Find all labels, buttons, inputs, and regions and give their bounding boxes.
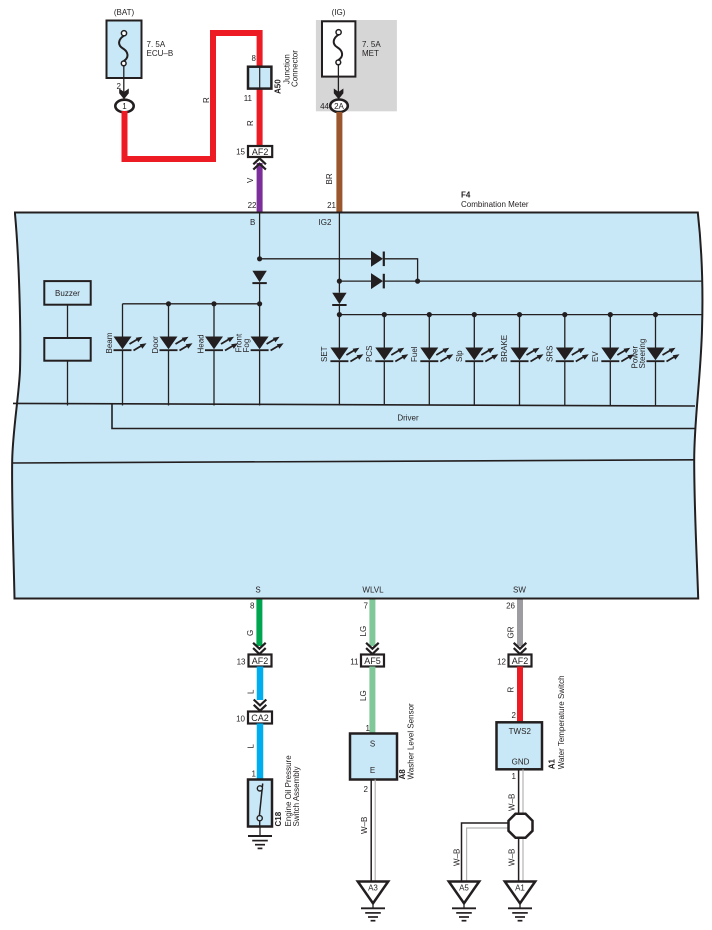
svg-text:2: 2	[512, 711, 517, 720]
svg-text:22: 22	[248, 201, 257, 210]
label Power Steering	[631, 339, 648, 369]
wire W-B from A8 to A3	[371, 780, 375, 882]
right LED bus	[339, 314, 702, 316]
svg-text:AF5: AF5	[364, 656, 381, 666]
connector AF5	[361, 655, 384, 667]
wire BR (brown) to combination meter	[336, 112, 342, 213]
wire Front Fog column	[259, 304, 261, 406]
wire diode D2 output to meter right edge	[384, 280, 703, 282]
svg-text:IG2: IG2	[319, 218, 332, 227]
wire W-B TWS2 to octagon junction	[519, 769, 523, 814]
svg-text:26: 26	[506, 602, 515, 611]
wire buzzer to driver box	[67, 305, 69, 338]
node bus EV	[608, 312, 613, 317]
ground (C18)	[248, 836, 272, 848]
node on IG2 wire	[337, 279, 342, 284]
wire B inside meter	[259, 213, 261, 261]
svg-text:ECU–B: ECU–B	[147, 49, 174, 58]
wire LG AF5 to washer sensor	[369, 667, 375, 734]
label Front Fog	[234, 333, 251, 352]
svg-text:F4: F4	[461, 190, 471, 199]
svg-text:WLVL: WLVL	[362, 586, 384, 595]
svg-text:2: 2	[364, 785, 369, 794]
water temperature switch TWS2	[497, 722, 543, 769]
wire Door column	[168, 304, 170, 406]
chevron into AF2 (12)	[514, 643, 527, 654]
svg-text:PCS: PCS	[365, 346, 374, 362]
wire EV column	[609, 315, 611, 406]
label A8 Washer Level Sensor	[398, 703, 416, 780]
wire V (violet) to combination meter	[257, 163, 263, 213]
svg-text:R: R	[202, 97, 211, 103]
svg-text:G: G	[246, 630, 255, 636]
node on B wire	[257, 256, 262, 261]
wire A5 to ground	[463, 903, 465, 908]
ground (A1)	[508, 908, 532, 920]
node bus PCS	[382, 312, 387, 317]
svg-text:AF2: AF2	[512, 656, 529, 666]
wire B node to right diode 1	[260, 258, 371, 260]
arrow into connector 2A	[334, 89, 344, 100]
connector circle 1	[115, 100, 133, 113]
LED SRS	[556, 348, 589, 362]
svg-text:1: 1	[366, 724, 371, 733]
meter internal line (top of driver band)	[13, 403, 695, 406]
wire LG from meter pin WLVL	[369, 600, 375, 647]
svg-text:A3: A3	[368, 884, 378, 893]
svg-text:8: 8	[252, 54, 257, 63]
svg-text:BRAKE: BRAKE	[500, 335, 509, 362]
svg-text:21: 21	[327, 201, 336, 210]
LED Beam	[114, 337, 147, 351]
svg-text:BR: BR	[325, 173, 334, 184]
connector triangle A3	[358, 882, 388, 904]
wire R (red) from connector 1 to junction A50 and AF2	[125, 33, 260, 159]
connector AF2 (12)	[509, 655, 532, 667]
junction connector A50	[248, 67, 271, 89]
svg-text:TWS2: TWS2	[509, 727, 532, 736]
wire buzzer driver to bottom bus	[67, 361, 69, 406]
svg-text:Beam: Beam	[105, 332, 114, 353]
wire SRS column	[564, 315, 566, 406]
svg-text:S: S	[370, 740, 375, 749]
svg-text:7. 5A: 7. 5A	[362, 40, 381, 49]
connector CA2	[248, 712, 272, 724]
svg-text:13: 13	[237, 658, 246, 667]
LED Fuel	[420, 348, 453, 362]
diode down on B branch	[252, 271, 266, 283]
svg-text:SET: SET	[320, 346, 329, 362]
driver band bracket	[112, 404, 696, 429]
fuse 7.5A ECU-B box	[107, 21, 142, 79]
wire diode D1 to node	[384, 259, 418, 281]
diode D2 (from IG2)	[371, 273, 384, 289]
LED Slp	[465, 348, 498, 362]
svg-text:44: 44	[320, 102, 329, 111]
svg-text:LG: LG	[359, 690, 368, 701]
node bus Front Fog	[257, 301, 262, 306]
svg-text:Slp: Slp	[455, 350, 464, 362]
svg-text:L: L	[247, 744, 256, 749]
svg-text:7: 7	[364, 602, 369, 611]
wire IG2 inside meter	[338, 213, 340, 293]
chevron into AF5	[366, 643, 379, 654]
wire G (green) from meter pin S	[256, 600, 262, 647]
wire fuse to connector 1	[123, 66, 125, 95]
svg-text:AF2: AF2	[252, 147, 269, 157]
node bus Door	[166, 301, 171, 306]
junction octagon	[509, 814, 533, 838]
svg-text:Connector: Connector	[291, 50, 300, 87]
svg-text:8: 8	[250, 602, 255, 611]
svg-text:11: 11	[244, 94, 253, 103]
LED Power Steering	[647, 348, 680, 362]
svg-text:1: 1	[512, 772, 517, 781]
svg-text:A5: A5	[459, 884, 469, 893]
svg-text:Fuel: Fuel	[410, 346, 419, 362]
arrow into connector 1	[119, 89, 129, 100]
driver stage box (buzzer)	[44, 338, 90, 361]
svg-text:7. 5A: 7. 5A	[147, 40, 166, 49]
svg-text:Buzzer: Buzzer	[55, 289, 80, 298]
wire GR (gray) from meter pin SW	[517, 600, 523, 647]
svg-text:AF2: AF2	[252, 656, 269, 666]
wire diode to left LED bus	[259, 283, 261, 305]
wire Power Steering column	[655, 315, 657, 406]
svg-text:E: E	[370, 766, 375, 775]
svg-text:W–B: W–B	[453, 849, 462, 866]
wire BRAKE column	[519, 315, 521, 406]
IG fuse gray panel	[316, 20, 397, 111]
ground (A5)	[452, 908, 476, 920]
svg-text:R: R	[246, 120, 255, 126]
wire A3 to ground	[372, 903, 374, 908]
svg-text:Water Temperature Switch: Water Temperature Switch	[557, 675, 566, 769]
ground (A3)	[361, 908, 385, 920]
label A50 Junction Connector	[274, 50, 300, 94]
wire Fuel column	[428, 315, 430, 406]
label A1 Water Temperature Switch	[548, 675, 567, 769]
wire Beam column	[122, 304, 124, 406]
connector circle 2A	[330, 100, 348, 113]
svg-text:CA2: CA2	[251, 713, 269, 723]
wire IG2 node to right diode 2	[339, 280, 371, 282]
LED BRAKE	[511, 348, 544, 362]
node joining D1 and D2 outputs	[415, 279, 420, 284]
wire Head column	[213, 304, 215, 406]
combination meter body	[12, 213, 702, 599]
wire C18 to ground	[259, 827, 261, 837]
meter internal separator line	[12, 460, 694, 463]
svg-text:Washer Level Sensor: Washer Level Sensor	[407, 703, 416, 780]
wire diode to right LED bus	[338, 304, 340, 315]
svg-text:(BAT): (BAT)	[114, 8, 135, 17]
wire L (blue) CA2 to C18	[257, 724, 264, 781]
node bus BRAKE	[517, 312, 522, 317]
svg-text:C18: C18	[274, 811, 283, 826]
svg-text:1: 1	[252, 770, 257, 779]
svg-text:W–B: W–B	[360, 817, 369, 834]
svg-text:1: 1	[122, 102, 127, 111]
svg-text:L: L	[247, 689, 256, 694]
svg-text:Head: Head	[197, 334, 206, 353]
wire W-B octagon to A5	[462, 823, 511, 882]
svg-text:A1: A1	[515, 884, 525, 893]
svg-text:W–B: W–B	[508, 849, 517, 866]
connector AF2 (13)	[249, 655, 272, 667]
node bus SRS	[562, 312, 567, 317]
svg-text:SW: SW	[513, 586, 526, 595]
connector triangle A5	[449, 882, 479, 904]
svg-text:Fog: Fog	[242, 339, 251, 353]
washer level sensor A8	[350, 734, 397, 780]
connector triangle A1	[505, 882, 535, 904]
node bus Head	[211, 301, 216, 306]
diode D1 (from B)	[371, 251, 384, 267]
node bus Slp	[472, 312, 477, 317]
wire SET column	[338, 315, 340, 406]
wire W-B octagon to A1	[519, 838, 523, 882]
oil pressure switch C18	[248, 780, 272, 827]
svg-text:GND: GND	[512, 757, 530, 766]
svg-text:W–B: W–B	[508, 794, 517, 811]
svg-text:A50: A50	[274, 79, 283, 94]
svg-text:GR: GR	[507, 626, 516, 638]
wire R (red) AF2 to TWS2	[517, 667, 523, 723]
LED Door	[160, 337, 193, 351]
wire A1 to ground	[519, 903, 521, 908]
svg-text:A1: A1	[548, 759, 557, 770]
svg-text:V: V	[246, 177, 255, 183]
svg-text:(IG): (IG)	[332, 8, 346, 17]
svg-text:Switch Assembly: Switch Assembly	[292, 766, 301, 826]
fuse 7.5A MET box	[322, 21, 355, 76]
chevron into AF2	[253, 158, 266, 169]
left LED bus	[123, 303, 260, 305]
svg-text:11: 11	[350, 658, 359, 667]
svg-text:SRS: SRS	[545, 346, 554, 362]
svg-text:R: R	[507, 687, 516, 693]
node bus Power Steering	[653, 312, 658, 317]
svg-text:12: 12	[497, 658, 506, 667]
svg-text:EV: EV	[591, 351, 600, 362]
wire L (blue) AF2 to CA2	[257, 667, 264, 701]
svg-text:MET: MET	[362, 49, 379, 58]
svg-text:15: 15	[236, 148, 245, 157]
svg-text:Steering: Steering	[638, 339, 647, 369]
svg-text:Combination Meter: Combination Meter	[461, 200, 529, 209]
svg-text:Driver: Driver	[397, 414, 419, 423]
svg-text:10: 10	[236, 715, 245, 724]
node bus SET	[337, 312, 342, 317]
svg-text:S: S	[255, 586, 260, 595]
buzzer box	[44, 281, 90, 305]
connector AF2 (15)	[248, 146, 272, 157]
LED EV	[601, 348, 634, 362]
chevron into CA2	[254, 700, 267, 711]
LED PCS	[375, 348, 408, 362]
svg-text:LG: LG	[359, 626, 368, 637]
wire Slp column	[473, 315, 475, 406]
diode down on IG2 branch	[332, 293, 346, 305]
LED Head	[205, 337, 238, 351]
label C18 Engine Oil Pressure Switch Assembly	[274, 755, 301, 827]
svg-text:Door: Door	[151, 336, 160, 354]
LED SET	[330, 348, 363, 362]
LED Front Fog	[251, 337, 284, 351]
wire fuse to connector 2A	[337, 65, 339, 95]
node bus Fuel	[427, 312, 432, 317]
svg-text:2A: 2A	[334, 102, 344, 111]
svg-text:B: B	[250, 218, 255, 227]
wire PCS column	[383, 315, 385, 406]
chevron into AF2 (13)	[253, 643, 266, 654]
